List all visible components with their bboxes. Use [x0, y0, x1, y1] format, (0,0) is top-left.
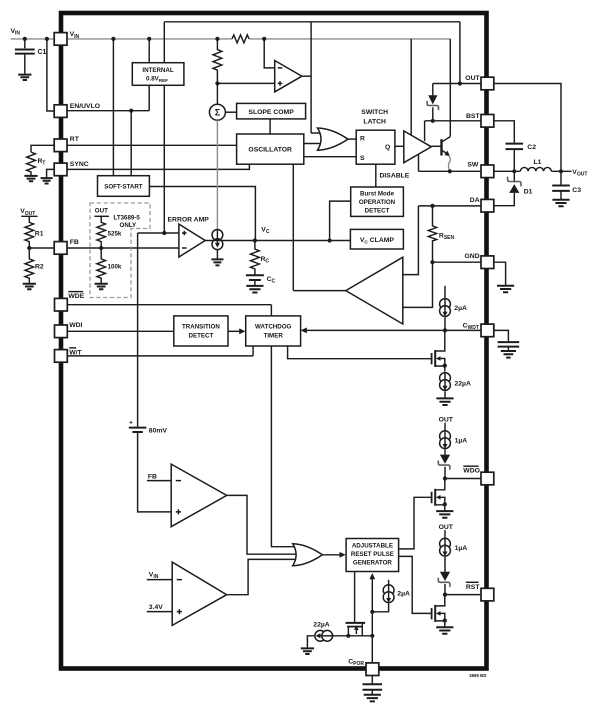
wire FB comparator output [227, 495, 300, 554]
svg-text:22µA: 22µA [313, 622, 329, 629]
wire watchdog to discharge FET gate [288, 346, 432, 359]
svg-text:L1: L1 [534, 159, 542, 166]
OR gate (switch latch reset) [318, 128, 349, 150]
node OUT internal [458, 81, 462, 85]
wire GND external ground [494, 262, 506, 285]
latch SWITCH LATCH [356, 109, 395, 164]
ground below C3 [552, 200, 569, 207]
wire GND internal [403, 262, 481, 307]
box ADJUSTABLE RESET PULSE GENERATOR [346, 539, 399, 572]
svg-text:1µA: 1µA [455, 545, 468, 552]
svg-text:SW: SW [467, 162, 479, 169]
svg-text:OUT: OUT [439, 524, 454, 531]
svg-text:RT: RT [70, 136, 80, 143]
svg-text:DISABLE: DISABLE [380, 173, 410, 180]
svg-text:22µA: 22µA [455, 381, 471, 388]
wire L1 to VOUT [551, 170, 571, 172]
wire DA internal [403, 206, 481, 275]
wire RPG to WDO gate [399, 497, 432, 549]
ground below 22uA POR [301, 648, 314, 654]
box VC CLAMP [350, 229, 403, 249]
wire WDO to pin [445, 478, 481, 480]
pin GND [465, 253, 494, 269]
wire VIN to EN/UVLO [47, 39, 54, 111]
box WATCHDOG TIMER [246, 316, 301, 346]
wire EN/UVLO [67, 110, 149, 112]
wire oscillator to OR gate [304, 143, 322, 145]
node POR net CPOR [370, 634, 374, 638]
node CWDT [443, 328, 447, 332]
node VIN-EN branch [45, 37, 49, 41]
pin WT [55, 348, 83, 362]
svg-text:WDI: WDI [69, 322, 82, 329]
svg-text:100k: 100k [108, 264, 122, 271]
wire oscillator to latch S [304, 156, 356, 158]
wire VIN comparator output [227, 559, 299, 594]
diode internal boost [427, 84, 438, 121]
wire watchdog to reset OR [271, 346, 299, 547]
node divider tap [215, 81, 219, 85]
box SOFT-START [98, 176, 150, 197]
transistor WDO pulldown FET [432, 479, 445, 511]
label 3.4V stub [147, 604, 172, 612]
wire comparator branch into OR gate [311, 132, 322, 134]
diode RST schottky [438, 572, 450, 595]
pin EN/UVLO [54, 103, 100, 117]
svg-text:R1: R1 [35, 231, 44, 238]
node rail-VREF [147, 37, 151, 41]
svg-text:RESET PULSE: RESET PULSE [351, 551, 394, 558]
resistor RT external [27, 145, 55, 175]
svg-text:1µA: 1µA [455, 438, 468, 445]
box INTERNAL 0.8VREF [132, 63, 184, 86]
op-amp comparator (top) [275, 61, 302, 92]
diode D1 [494, 171, 533, 205]
node FB divider internal [99, 246, 103, 250]
ground below RST FET [436, 627, 453, 634]
sigma summer [209, 104, 225, 120]
wire BST to driver top [424, 121, 426, 141]
label VOUT external divider [20, 208, 37, 217]
svg-text:2µA: 2µA [397, 590, 410, 597]
node POR FET gate [346, 634, 350, 638]
wire VREF down to error amp + input [163, 22, 165, 233]
svg-text:R2: R2 [35, 264, 44, 271]
svg-text:LT3689-5: LT3689-5 [114, 215, 141, 222]
ground below WDO FET [436, 511, 453, 518]
resistor RSEN [428, 206, 454, 262]
pin FB [54, 239, 79, 254]
wire POR feedback (arrow up into RPG) [369, 573, 375, 663]
svg-text:C3: C3 [572, 187, 581, 194]
svg-text:ONLY: ONLY [120, 222, 137, 229]
svg-text:OPERATION: OPERATION [359, 199, 396, 206]
diode WDO schottky [438, 455, 450, 479]
wire WDI to transition detect [67, 330, 174, 332]
pin OUT [465, 75, 494, 90]
svg-text:SWITCH: SWITCH [361, 109, 388, 116]
current source 22uA [440, 373, 471, 398]
svg-text:RST: RST [466, 584, 480, 591]
capacitor C3 [552, 171, 581, 199]
svg-text:OSCILLATOR: OSCILLATOR [248, 147, 292, 154]
wire SW internal [419, 170, 482, 172]
node SW emitter [448, 169, 452, 173]
ground below C1 [18, 75, 31, 80]
capacitor CPOR external [363, 675, 383, 694]
pin RT [54, 136, 80, 151]
node VC-burst [328, 238, 332, 242]
svg-text:TIMER: TIMER [264, 332, 284, 339]
wire tap to sigma [216, 83, 218, 104]
svg-text:Q: Q [385, 144, 390, 151]
current source 22uA POR [307, 622, 333, 648]
ground below gm [211, 250, 223, 266]
node RST FET source [443, 618, 447, 622]
wire RST to pin [445, 594, 481, 596]
ground below CWDT cap [501, 351, 516, 358]
svg-text:SLOPE COMP: SLOPE COMP [248, 109, 294, 116]
op-amp VIN comparator [172, 562, 227, 625]
label OUT stub WDO [439, 416, 454, 430]
svg-text:FB: FB [148, 473, 157, 480]
wire driver bottom to SW [418, 154, 420, 171]
node R1-R2 [27, 246, 31, 250]
pin WDO [463, 466, 494, 485]
node BST-diode [431, 119, 435, 123]
wire SYNC to oscillator [67, 164, 249, 169]
pin WDI [55, 322, 83, 337]
ground at GND pin [497, 286, 514, 293]
node rail comparator branch [262, 37, 266, 41]
wire rail to comparator - input [264, 39, 275, 68]
wire RPG to RST gate [399, 556, 432, 613]
dashed box LT3689-5 ONLY [90, 203, 150, 298]
pin SW [467, 162, 493, 178]
resistor RC [250, 241, 269, 275]
svg-text:ADJUSTABLE: ADJUSTABLE [352, 543, 393, 550]
node error amp + input [162, 231, 166, 235]
svg-text:WDE: WDE [68, 293, 84, 300]
wire CWDT net (arrow into watchdog) [301, 328, 481, 334]
pin CPOR [348, 658, 379, 675]
ground below 100k [95, 284, 108, 290]
transistor CWDT discharge FET [432, 330, 445, 371]
wire latch to burst detect [375, 164, 377, 187]
label FB stub [147, 473, 171, 480]
label VIN stub [147, 571, 172, 580]
node POR net 2uA [370, 610, 374, 614]
current source gm output [212, 230, 223, 250]
node VC [253, 238, 257, 242]
node SW-D1 [512, 169, 516, 173]
wire OUT external to VOUT [494, 84, 561, 172]
resistor in VIN rail [232, 35, 249, 43]
wire to error amp + [138, 232, 179, 234]
svg-text:3689 BD: 3689 BD [469, 673, 486, 678]
svg-text:+: + [129, 420, 133, 427]
transistor POR discharge FET [346, 623, 366, 636]
resistor slope divider [213, 39, 222, 84]
resistor R1 [25, 216, 44, 248]
wire WT to watchdog timer [67, 346, 253, 356]
label OUT stub RST [439, 524, 454, 538]
inductor L1 [520, 159, 551, 171]
wire emitter to SW node (gray) [448, 156, 450, 172]
wire BST [425, 120, 481, 122]
wire sigma to slope comp [225, 111, 236, 113]
svg-text:2µA: 2µA [454, 305, 467, 312]
wire WDE to watchdog timer [67, 305, 271, 316]
current source 1uA WDO [440, 431, 468, 455]
wire comparator output [302, 75, 311, 77]
node EN junction [129, 109, 133, 113]
node VIN-C1 [23, 37, 27, 41]
node GND-RSEN [430, 260, 434, 264]
wire transition detect to watchdog (arrow) [228, 328, 245, 334]
node FET source [443, 364, 447, 368]
node rail divider [215, 37, 219, 41]
wire soft-start output to VC [149, 187, 255, 241]
transistor Q1 power switch [431, 137, 450, 156]
svg-text:INTERNAL: INTERNAL [142, 67, 173, 74]
pin WDE [55, 292, 85, 311]
wire rail to driver bias [410, 39, 412, 135]
wire RPG bottom to POR FET [354, 572, 356, 622]
wire SW external [494, 170, 521, 172]
wire VIN rail [11, 39, 451, 137]
wire RT to oscillator [67, 144, 237, 146]
node WDO [443, 476, 447, 480]
wire comparator output top rail [164, 22, 460, 133]
capacitor C1 [15, 39, 47, 74]
wire OR to latch R [348, 138, 356, 140]
resistor 100k [97, 248, 122, 283]
capacitor CWDT external [494, 330, 519, 350]
node VOUT [559, 169, 563, 173]
wire OUT internal [433, 83, 481, 85]
svg-text:ERROR AMP: ERROR AMP [168, 216, 210, 223]
svg-text:SOFT-START: SOFT-START [104, 184, 143, 191]
svg-text:WATCHDOG: WATCHDOG [255, 324, 292, 331]
wire VC to burst detect [330, 201, 351, 240]
svg-text:TRANSITION: TRANSITION [182, 324, 220, 331]
wire EN junction to soft-start [130, 111, 132, 176]
wire slope comp to oscillator [269, 119, 271, 134]
ground below CPOR cap [364, 695, 381, 702]
svg-text:R: R [360, 136, 365, 143]
ground below RT resistor [24, 176, 37, 181]
wire BST external [494, 121, 515, 143]
OR gate reset [293, 544, 323, 566]
pin DA [470, 197, 494, 212]
wire OR to RPG (arrow) [322, 552, 345, 558]
pin RST [466, 582, 494, 601]
capacitor C2 [506, 144, 537, 172]
svg-text:525k: 525k [108, 230, 122, 237]
box OSCILLATOR [237, 134, 304, 164]
node rail-softstart1 [111, 37, 115, 41]
svg-text:GENERATOR: GENERATOR [353, 560, 392, 567]
driver amplifier [404, 131, 432, 163]
pin CWDT [463, 323, 494, 337]
svg-text:WDO: WDO [463, 468, 480, 475]
resistor R2 [25, 248, 44, 283]
svg-text:Σ: Σ [215, 108, 221, 118]
capacitor CC [246, 275, 276, 285]
svg-text:GND: GND [465, 253, 480, 260]
wire current comparator output to oscillator [293, 164, 346, 291]
transistor RST pulldown FET [432, 595, 445, 627]
svg-text:DETECT: DETECT [365, 208, 390, 215]
box TRANSITION DETECT [174, 316, 228, 346]
pin SYNC [54, 161, 89, 176]
current source 1uA RST [440, 538, 468, 572]
svg-text:C1: C1 [38, 49, 47, 56]
wire 22uA to POR FET [334, 635, 373, 637]
svg-text:BST: BST [466, 113, 480, 120]
node DA-RSEN [430, 204, 434, 208]
svg-text:OUT: OUT [439, 416, 454, 423]
wire FB net [67, 247, 179, 249]
current source 2uA watchdog [440, 286, 467, 331]
wire rail to soft-start left [112, 39, 114, 176]
pin VIN [54, 31, 79, 45]
svg-text:DA: DA [470, 197, 480, 204]
wire rail to VREF box [148, 39, 150, 111]
svg-text:3.4V: 3.4V [149, 604, 163, 611]
op-amp current comparator [346, 257, 403, 324]
battery 80mV offset [129, 233, 171, 512]
op-amp FB comparator [171, 464, 227, 527]
resistor 525k [97, 216, 122, 248]
wire sigma to gm output (gray) [216, 120, 218, 230]
box Burst Mode OPERATION DETECT [351, 187, 404, 216]
svg-text:D1: D1 [524, 188, 533, 195]
svg-text:C2: C2 [527, 144, 536, 151]
ground below CC [246, 286, 263, 293]
pin BST [466, 113, 494, 127]
svg-text:Burst Mode: Burst Mode [360, 190, 395, 197]
svg-text:DETECT: DETECT [189, 332, 214, 339]
ground at SYNC pin [41, 169, 55, 183]
current source 2uA POR [372, 580, 410, 612]
svg-text:LATCH: LATCH [363, 118, 386, 125]
amplifier ERROR AMP [168, 216, 210, 257]
IC boundary box [61, 13, 487, 669]
wire tap to comparator + [217, 82, 274, 84]
ground below 22uA [436, 398, 453, 405]
svg-text:OUT: OUT [95, 207, 108, 214]
box SLOPE COMP [237, 103, 306, 119]
svg-text:EN/UVLO: EN/UVLO [70, 103, 100, 110]
wire VC net [205, 240, 350, 242]
node WDO FET source [443, 502, 447, 506]
svg-text:80mV: 80mV [149, 427, 168, 434]
wire divider to FB pin [29, 247, 54, 249]
svg-text:FB: FB [70, 239, 79, 246]
wire Q to driver [395, 145, 404, 147]
ground below R2 [23, 284, 36, 290]
node RST [443, 593, 447, 597]
svg-text:OUT: OUT [465, 75, 480, 82]
svg-text:S: S [360, 155, 365, 162]
svg-text:SYNC: SYNC [70, 161, 89, 168]
